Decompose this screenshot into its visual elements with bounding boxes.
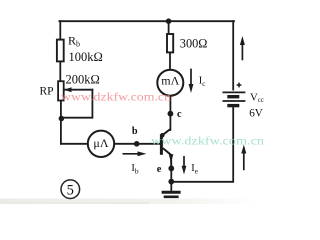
wire corner to uA meter <box>61 143 89 145</box>
svg-text:6V: 6V <box>249 107 263 119</box>
battery Vcc plates <box>223 92 246 105</box>
meter uA (U2) <box>88 131 114 157</box>
current arrow up (bottom right) <box>243 151 245 170</box>
svg-text:b: b <box>132 126 138 137</box>
figure number 5 <box>61 180 80 199</box>
svg-text:Ie: Ie <box>191 163 198 176</box>
node dot left rail junction <box>59 116 65 122</box>
current arrow Ib (right) <box>123 153 140 155</box>
svg-text:5: 5 <box>67 183 74 199</box>
svg-text:c: c <box>177 109 182 120</box>
RP wiper arrowhead <box>64 87 72 92</box>
svg-text:RP: RP <box>40 86 54 98</box>
svg-text:Vcc: Vcc <box>250 91 264 104</box>
potentiometer RP <box>58 81 64 100</box>
svg-text:Ib: Ib <box>131 163 138 176</box>
svg-text:200kΩ: 200kΩ <box>66 73 100 87</box>
current arrow up (top right) <box>241 42 243 60</box>
node dot top junction <box>166 18 172 24</box>
wire right rail lower <box>170 107 233 182</box>
svg-text:Ic: Ic <box>199 75 206 88</box>
wire 300 ohm to mA <box>169 52 171 70</box>
wire right rail upper <box>232 21 234 89</box>
ground <box>162 182 181 197</box>
transistor Q1 collector lead <box>162 129 170 135</box>
svg-text:Rb: Rb <box>68 34 80 49</box>
resistor Rb <box>57 40 64 62</box>
wire left rail upper <box>59 21 61 40</box>
current arrow Ic (down) <box>190 69 192 85</box>
node ground junction <box>168 179 174 185</box>
wire RP bottom to uA corner <box>60 100 62 143</box>
svg-text:www.dzkfw.com.cn: www.dzkfw.com.cn <box>151 135 264 147</box>
svg-text:μΛ: μΛ <box>93 136 108 150</box>
wire wiper loop to rail junction <box>62 90 92 118</box>
meter mA (U1) <box>157 70 183 96</box>
node c <box>168 111 174 117</box>
wire emitter to ground junction <box>170 167 172 182</box>
node b <box>134 141 140 147</box>
svg-text:mΛ: mΛ <box>161 74 179 88</box>
node e <box>168 166 174 172</box>
wire uA to base <box>115 143 160 145</box>
resistor 300ohm <box>167 34 173 52</box>
transistor Q1 emitter lead with arrow <box>163 148 172 167</box>
current arrow Ie (down) <box>183 156 185 168</box>
battery plus sign <box>237 83 242 88</box>
svg-text:www.dzkfw.com.cn: www.dzkfw.com.cn <box>61 92 171 104</box>
transistor Q1 base bar <box>160 134 163 155</box>
wire Rb bottom to RP top <box>59 61 61 81</box>
wire RP wiper lead <box>65 89 93 91</box>
svg-text:300Ω: 300Ω <box>180 36 208 50</box>
svg-text:100kΩ: 100kΩ <box>69 50 103 64</box>
wire mA to collector <box>169 96 171 130</box>
svg-text:e: e <box>157 164 162 175</box>
wire top <box>59 20 234 22</box>
wire top junction to 300 ohm <box>168 21 170 34</box>
